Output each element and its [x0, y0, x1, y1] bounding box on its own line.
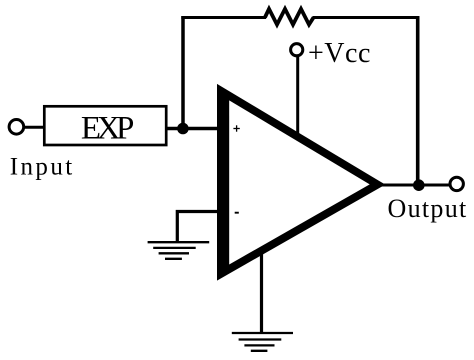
svg-text:Output: Output: [388, 194, 468, 223]
svg-text:+Vcc: +Vcc: [308, 38, 371, 69]
svg-text:EXP: EXP: [81, 111, 134, 147]
svg-text:Input: Input: [10, 154, 75, 181]
